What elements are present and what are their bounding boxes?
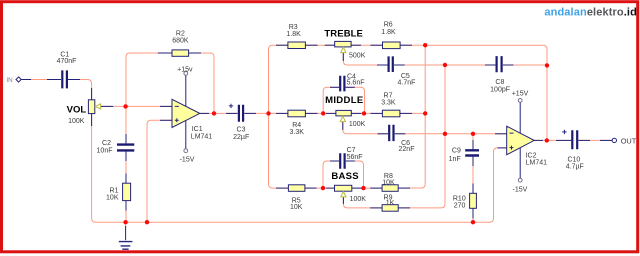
svg-text:C10: C10 — [567, 156, 580, 163]
svg-text:-15V: -15V — [513, 187, 528, 194]
svg-text:C2: C2 — [102, 140, 111, 147]
svg-text:LM741: LM741 — [191, 134, 213, 141]
svg-text:10K: 10K — [382, 179, 395, 186]
svg-text:3.3K: 3.3K — [381, 99, 396, 106]
svg-text:100K: 100K — [349, 121, 366, 128]
svg-text:R6: R6 — [384, 21, 393, 28]
svg-text:1K: 1K — [386, 200, 395, 207]
svg-text:BASS: BASS — [331, 171, 358, 182]
svg-text:1.8K: 1.8K — [286, 31, 301, 38]
svg-text:100K: 100K — [68, 118, 85, 125]
svg-text:270: 270 — [454, 203, 466, 210]
svg-text:andalanelektro.id: andalanelektro.id — [544, 7, 637, 19]
svg-text:22nF: 22nF — [399, 146, 415, 153]
svg-text:22µF: 22µF — [233, 134, 249, 141]
svg-text:10nF: 10nF — [97, 147, 113, 154]
svg-text:5.6nF: 5.6nF — [347, 80, 365, 87]
svg-text:VOL: VOL — [67, 104, 87, 115]
svg-text:56nF: 56nF — [347, 154, 363, 161]
svg-text:3.3K: 3.3K — [289, 129, 304, 136]
svg-text:4.7nF: 4.7nF — [398, 79, 416, 86]
svg-text:IC1: IC1 — [192, 126, 203, 133]
svg-text:680K: 680K — [172, 37, 189, 44]
svg-text:MIDDLE: MIDDLE — [325, 95, 363, 106]
svg-text:-15V: -15V — [180, 156, 195, 163]
svg-text:+15v: +15v — [177, 67, 193, 74]
svg-text:4.7µF: 4.7µF — [566, 164, 584, 171]
svg-text:500K: 500K — [349, 52, 366, 59]
svg-text:OUT: OUT — [621, 136, 637, 145]
svg-text:C9: C9 — [452, 148, 461, 155]
svg-text:TREBLE: TREBLE — [324, 28, 363, 39]
svg-text:10K: 10K — [106, 195, 119, 202]
svg-text:470nF: 470nF — [57, 58, 77, 65]
svg-text:C3: C3 — [237, 126, 246, 133]
svg-text:1.8K: 1.8K — [381, 29, 396, 36]
svg-text:R1: R1 — [110, 188, 119, 195]
svg-text:LM741: LM741 — [526, 159, 548, 166]
svg-text:10K: 10K — [290, 204, 303, 211]
svg-text:C8: C8 — [495, 79, 504, 86]
svg-text:+15V: +15V — [512, 91, 529, 98]
svg-text:IN: IN — [6, 77, 13, 84]
svg-text:100K: 100K — [350, 196, 367, 203]
svg-text:100pF: 100pF — [490, 87, 510, 94]
svg-text:1nF: 1nF — [449, 156, 461, 163]
